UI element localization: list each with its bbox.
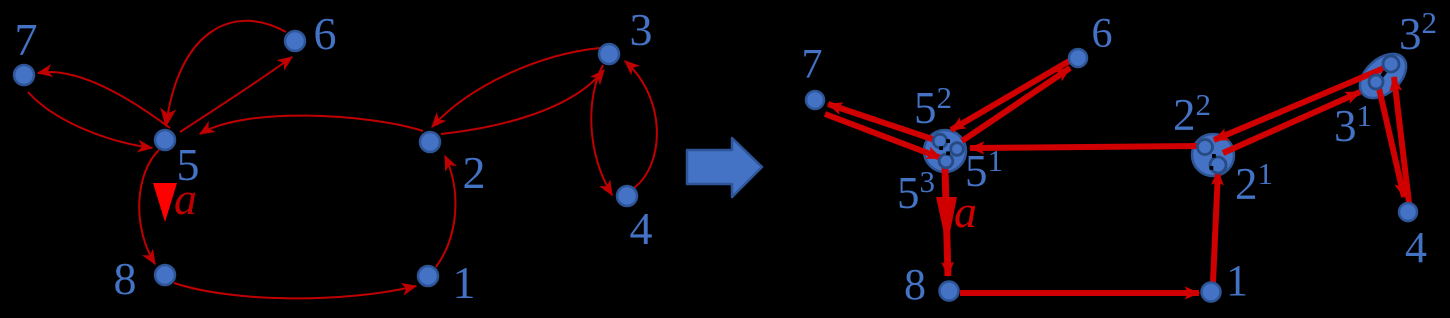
- svg-text:4: 4: [1405, 223, 1427, 272]
- svg-text:8: 8: [904, 260, 926, 309]
- svg-text:a: a: [174, 173, 197, 224]
- svg-text:6: 6: [1092, 11, 1113, 57]
- svg-text:6: 6: [314, 8, 337, 59]
- svg-text:8: 8: [114, 253, 137, 304]
- svg-text:7: 7: [802, 42, 823, 88]
- svg-text:4: 4: [630, 203, 653, 254]
- svg-text:1: 1: [453, 257, 476, 308]
- svg-text:1: 1: [1226, 256, 1248, 305]
- svg-text:2: 2: [463, 147, 486, 198]
- svg-text:7: 7: [15, 14, 38, 65]
- svg-text:3: 3: [630, 4, 653, 55]
